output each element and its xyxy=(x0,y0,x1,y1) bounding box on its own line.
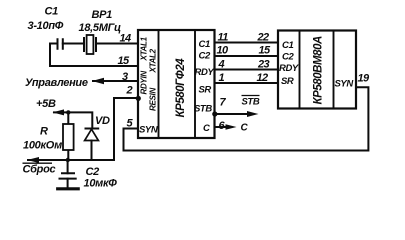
wire +5V to R top and VD top xyxy=(54,112,92,128)
svg-text:3: 3 xyxy=(122,71,128,83)
svg-text:STB: STB xyxy=(242,97,260,108)
svg-text:15: 15 xyxy=(259,45,272,57)
svg-text:C1: C1 xyxy=(199,39,210,50)
svg-text:Сброс: Сброс xyxy=(23,164,56,176)
junction dot pin2 RESIN xyxy=(136,96,141,101)
svg-text:SYN: SYN xyxy=(139,125,159,136)
svg-text:22: 22 xyxy=(257,32,270,44)
junction dot +5V node xyxy=(66,110,70,114)
svg-text:Управление: Управление xyxy=(25,77,88,89)
svg-text:RESIN: RESIN xyxy=(149,88,158,111)
svg-text:C2: C2 xyxy=(282,52,294,63)
svg-text:1: 1 xyxy=(219,72,225,84)
wire Sbros (reset) xyxy=(28,159,114,161)
svg-text:2: 2 xyxy=(126,85,133,97)
junction dot STB pin 7 xyxy=(212,111,217,116)
capacitor C1 xyxy=(58,39,63,48)
wire crystal top (C1 to XTAL1 pin 14) xyxy=(50,43,138,45)
svg-text:VD: VD xyxy=(95,115,110,127)
svg-text:3-10пФ: 3-10пФ xyxy=(28,20,64,32)
capacitor C2 plates xyxy=(60,173,76,178)
svg-text:C2: C2 xyxy=(86,166,100,178)
svg-text:23: 23 xyxy=(257,59,270,71)
chip U1 KR580GF24 body xyxy=(138,30,215,138)
capacitor C2 leads xyxy=(67,160,69,189)
wire STB out (pin 7) xyxy=(215,113,253,115)
svg-text:RDY: RDY xyxy=(279,63,300,74)
wire SYN feedback (pin 19 to pin 5) xyxy=(124,87,369,150)
arrowhead Sbros (left) xyxy=(27,157,39,163)
svg-text:ВР1: ВР1 xyxy=(92,9,113,21)
chip U2 KR580VM80A body xyxy=(278,31,356,109)
wire SR (pin 1 to 12) xyxy=(215,82,279,84)
svg-text:SYN: SYN xyxy=(335,79,355,90)
chip U1 divider left xyxy=(158,30,160,138)
svg-text:18,5МГц: 18,5МГц xyxy=(79,22,122,34)
svg-text:4: 4 xyxy=(218,59,225,71)
svg-text:12: 12 xyxy=(257,72,269,84)
wire RDY (pin 4 to 23) xyxy=(215,69,279,71)
wire RDYIN pin 3 (Upravlenie) xyxy=(93,80,138,82)
wire left loop to XTAL2 pin 15 xyxy=(50,44,138,67)
chip U2 divider right xyxy=(333,31,335,109)
crystal BP1 xyxy=(84,38,96,51)
svg-text:C2: C2 xyxy=(199,51,211,62)
diode VD xyxy=(86,128,99,130)
wire C1 clock phase1 (pin 11 to 22) xyxy=(215,42,279,44)
ground bar xyxy=(58,187,78,190)
svg-text:STB: STB xyxy=(194,104,212,115)
junction dot R bottom / reset node xyxy=(66,158,70,162)
svg-text:C: C xyxy=(241,123,249,134)
wire C out (pin 6) xyxy=(215,126,232,128)
wire C2 clock phase2 (pin 10 to 15) xyxy=(215,55,279,57)
svg-text:RDY: RDY xyxy=(195,67,216,78)
arrowhead Upravlenie (left) xyxy=(92,78,104,84)
svg-text:КР580ГФ24: КР580ГФ24 xyxy=(175,58,187,118)
svg-text:КР580ВМ80А: КР580ВМ80А xyxy=(313,36,325,105)
chip U2 divider left xyxy=(299,31,301,109)
svg-text:11: 11 xyxy=(218,32,229,44)
svg-text:SR: SR xyxy=(199,85,212,96)
svg-text:C1: C1 xyxy=(45,6,59,18)
svg-text:+5В: +5В xyxy=(36,98,56,110)
svg-text:10: 10 xyxy=(217,45,230,57)
wire RESIN pin 2 xyxy=(114,98,138,160)
svg-text:14: 14 xyxy=(120,33,132,45)
arrowhead C (right) xyxy=(226,124,237,130)
svg-text:XTAL2: XTAL2 xyxy=(149,48,158,73)
resistor R body xyxy=(63,124,74,150)
arrowhead STB (right) xyxy=(247,111,259,117)
svg-text:10мкФ: 10мкФ xyxy=(84,178,118,190)
svg-text:C1: C1 xyxy=(282,40,293,51)
svg-text:RDYIN: RDYIN xyxy=(140,71,149,95)
chip U1 divider right xyxy=(194,30,196,138)
svg-text:XTAL1: XTAL1 xyxy=(140,36,149,61)
resistor R leads xyxy=(67,112,69,160)
svg-text:C: C xyxy=(203,123,210,134)
svg-text:15: 15 xyxy=(118,55,131,67)
svg-text:100кОм: 100кОм xyxy=(23,140,62,152)
svg-text:SR: SR xyxy=(281,76,294,87)
svg-text:19: 19 xyxy=(358,73,371,85)
svg-text:R: R xyxy=(40,126,48,138)
arrowhead +5V (left) xyxy=(53,109,65,115)
